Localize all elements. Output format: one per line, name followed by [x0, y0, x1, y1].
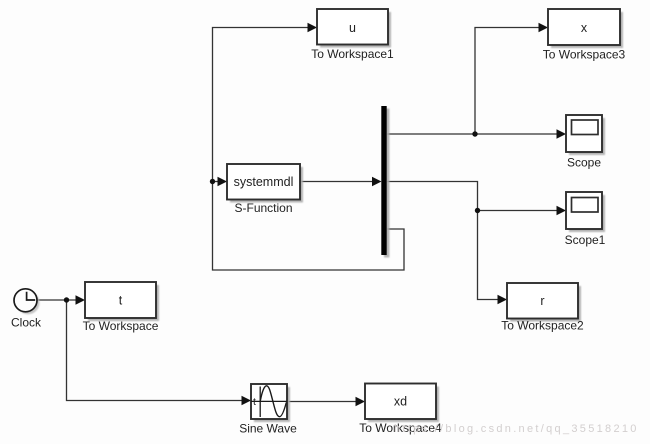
- svg-text:systemmdl: systemmdl: [234, 175, 294, 189]
- svg-text:S-Function: S-Function: [234, 201, 292, 215]
- svg-text:Clock: Clock: [11, 316, 42, 330]
- svg-text:Sine Wave: Sine Wave: [239, 422, 297, 436]
- svg-text:To Workspace3: To Workspace3: [543, 48, 626, 62]
- svg-text:To Workspace: To Workspace: [83, 319, 159, 333]
- svg-text:Scope1: Scope1: [565, 233, 606, 247]
- svg-text:https://blog.csdn.net/qq_35518: https://blog.csdn.net/qq_35518210: [394, 423, 639, 435]
- svg-text:x: x: [581, 21, 588, 35]
- svg-text:t: t: [119, 294, 123, 308]
- svg-text:Scope: Scope: [567, 156, 601, 170]
- svg-text:To Workspace1: To Workspace1: [311, 47, 394, 61]
- svg-text:t: t: [253, 396, 256, 408]
- svg-text:xd: xd: [394, 395, 407, 409]
- svg-text:u: u: [349, 21, 356, 35]
- svg-text:r: r: [540, 294, 544, 308]
- svg-text:To Workspace2: To Workspace2: [501, 319, 584, 333]
